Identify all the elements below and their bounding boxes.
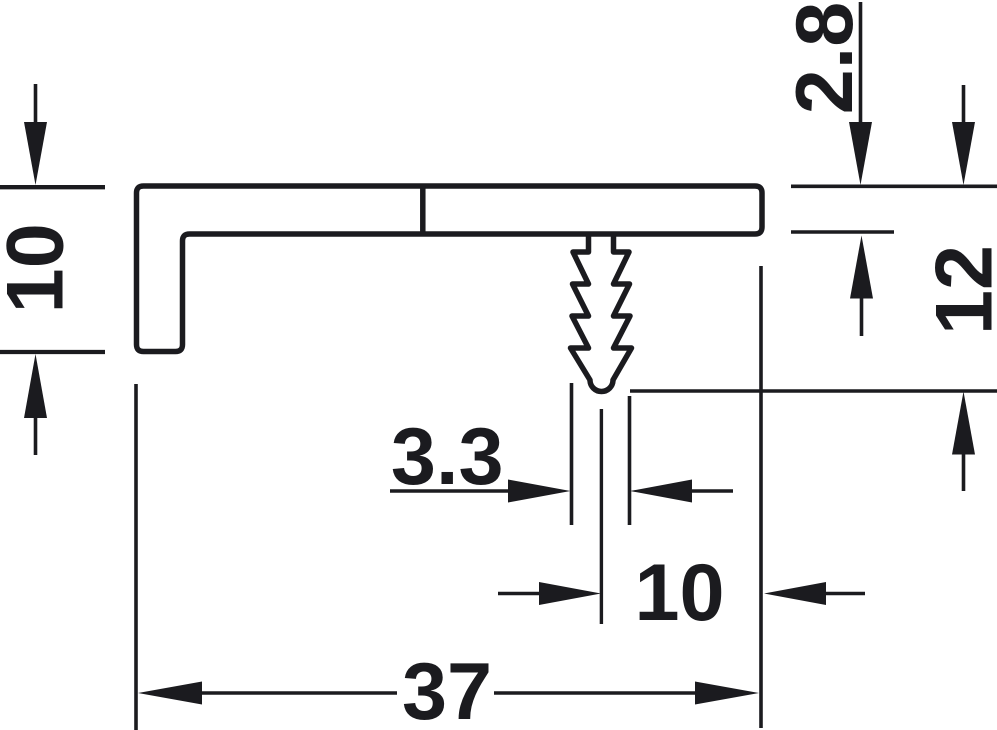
svg-text:10: 10 [634,548,724,638]
svg-text:2.8: 2.8 [780,2,870,115]
svg-text:37: 37 [402,647,492,730]
svg-text:3.3: 3.3 [391,412,504,502]
svg-text:12: 12 [920,245,997,335]
svg-text:10: 10 [0,223,80,313]
